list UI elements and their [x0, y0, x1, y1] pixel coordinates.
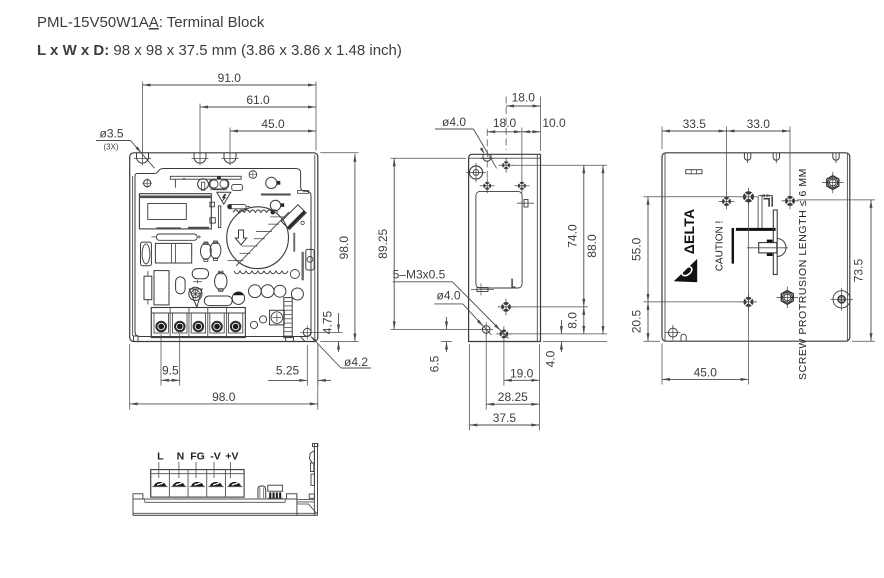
svg-text:73.5: 73.5	[852, 259, 866, 283]
svg-text:6.5: 6.5	[428, 355, 442, 372]
svg-text:37.5: 37.5	[493, 411, 517, 425]
svg-text:ø4.0: ø4.0	[442, 115, 466, 129]
svg-text:45.0: 45.0	[261, 117, 285, 131]
svg-text:61.0: 61.0	[246, 93, 270, 107]
svg-text:9.5: 9.5	[162, 364, 179, 378]
svg-text:ΔELTA: ΔELTA	[681, 209, 697, 255]
svg-text:N: N	[177, 451, 185, 463]
svg-text:CAUTION !: CAUTION !	[714, 221, 725, 272]
svg-text:10.0: 10.0	[542, 116, 566, 130]
svg-text:18.0: 18.0	[493, 116, 517, 130]
svg-text:89.25: 89.25	[376, 228, 390, 258]
svg-text:45.0: 45.0	[694, 365, 718, 379]
svg-text:L x W x D: 98 x 98 x 37.5 mm (: L x W x D: 98 x 98 x 37.5 mm (3.86 x 3.8…	[37, 42, 402, 59]
svg-text:5–M3x0.5: 5–M3x0.5	[393, 268, 446, 282]
svg-text:55.0: 55.0	[630, 237, 644, 261]
svg-text:88.0: 88.0	[585, 234, 599, 258]
svg-text:20.5: 20.5	[630, 310, 644, 334]
svg-text:-V: -V	[210, 451, 221, 463]
svg-text:33.5: 33.5	[683, 117, 707, 131]
svg-text:33.0: 33.0	[747, 117, 771, 131]
svg-text:(3X): (3X)	[103, 143, 118, 152]
svg-text:74.0: 74.0	[566, 224, 580, 248]
svg-text:5.25: 5.25	[276, 364, 300, 378]
svg-text:ø3.5: ø3.5	[99, 127, 123, 141]
svg-text:98.0: 98.0	[212, 390, 236, 404]
svg-text:8.0: 8.0	[566, 312, 580, 329]
svg-text:4.75: 4.75	[321, 310, 335, 334]
svg-text:L: L	[157, 451, 164, 463]
svg-text:18.0: 18.0	[512, 91, 536, 105]
svg-text:ø4.0: ø4.0	[436, 289, 460, 303]
svg-text:91.0: 91.0	[218, 71, 242, 85]
svg-text:19.0: 19.0	[510, 366, 534, 380]
svg-text:PML-15V50W1AA: Terminal Block: PML-15V50W1AA: Terminal Block	[37, 14, 265, 31]
svg-text:ø4.2: ø4.2	[344, 355, 368, 369]
svg-text:98.0: 98.0	[337, 236, 351, 260]
svg-text:FG: FG	[190, 451, 205, 463]
svg-text:4.0: 4.0	[544, 350, 558, 367]
svg-text:28.25: 28.25	[498, 390, 528, 404]
svg-text:+V: +V	[225, 451, 238, 463]
